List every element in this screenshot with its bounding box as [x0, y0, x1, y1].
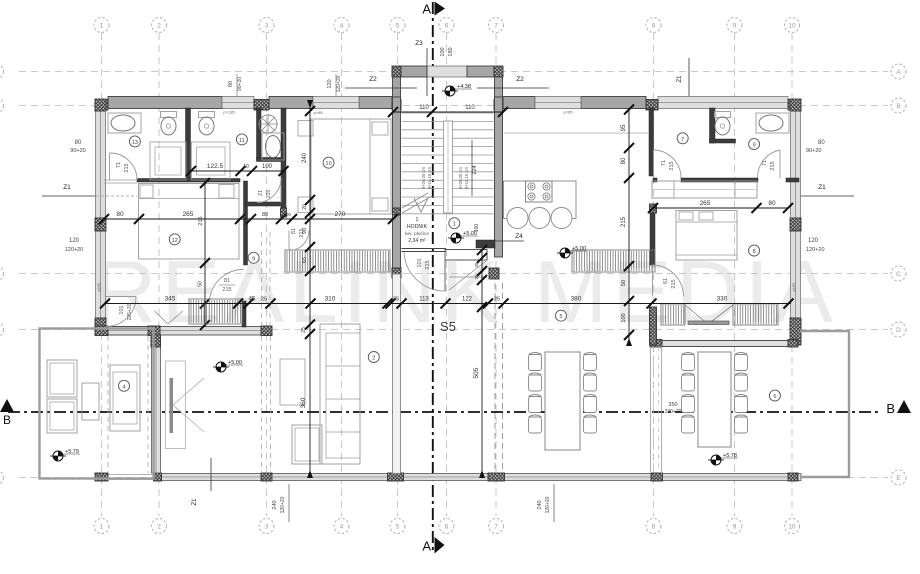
svg-text:8: 8 — [652, 524, 656, 531]
svg-text:80: 80 — [818, 140, 825, 146]
svg-text:9×28,00 cm: 9×28,00 cm — [458, 166, 463, 189]
svg-text:345: 345 — [165, 296, 176, 303]
svg-text:120+20: 120+20 — [545, 496, 551, 513]
svg-text:265: 265 — [700, 200, 711, 207]
svg-text:100: 100 — [440, 47, 446, 56]
svg-text:Z1: Z1 — [258, 190, 264, 196]
svg-text:9×16,10 cm: 9×16,10 cm — [427, 166, 432, 189]
svg-text:6: 6 — [773, 394, 776, 400]
svg-text:A: A — [896, 69, 901, 76]
svg-text:120: 120 — [808, 238, 819, 244]
svg-text:4: 4 — [340, 23, 344, 30]
svg-text:7: 7 — [494, 23, 498, 30]
svg-text:71: 71 — [116, 162, 122, 168]
svg-text:90+20: 90+20 — [806, 148, 821, 154]
svg-text:2: 2 — [157, 23, 161, 30]
svg-text:2: 2 — [372, 356, 375, 362]
svg-text:240: 240 — [272, 500, 278, 509]
svg-text:B: B — [896, 103, 900, 110]
svg-text:S5: S5 — [440, 319, 456, 334]
svg-text:Z1: Z1 — [818, 184, 826, 191]
svg-text:100: 100 — [262, 164, 273, 170]
svg-text:25: 25 — [301, 327, 307, 333]
svg-text:12: 12 — [172, 238, 178, 244]
svg-text:4: 4 — [340, 524, 344, 531]
svg-text:2,34 m²: 2,34 m² — [408, 238, 426, 244]
svg-text:2: 2 — [157, 524, 161, 531]
svg-text:10: 10 — [326, 161, 332, 167]
svg-text:65: 65 — [302, 257, 308, 263]
svg-text:215: 215 — [669, 161, 675, 170]
svg-text:80: 80 — [621, 157, 627, 164]
svg-text:81: 81 — [291, 228, 297, 234]
svg-text:ker. pločice: ker. pločice — [405, 231, 429, 237]
svg-text:101: 101 — [119, 305, 125, 314]
svg-text:360: 360 — [300, 397, 307, 408]
svg-text:A: A — [422, 2, 431, 17]
svg-text:80: 80 — [116, 211, 124, 218]
svg-text:3: 3 — [265, 524, 269, 531]
svg-text:C: C — [896, 271, 901, 278]
svg-text:5: 5 — [396, 23, 400, 30]
svg-text:9: 9 — [753, 143, 756, 149]
svg-text:330+20: 330+20 — [665, 409, 682, 415]
svg-text:215: 215 — [266, 190, 272, 199]
svg-text:61: 61 — [663, 278, 669, 284]
svg-text:100: 100 — [621, 313, 627, 322]
svg-text:95: 95 — [621, 124, 627, 131]
svg-text:45: 45 — [249, 297, 256, 303]
svg-text:p=95: p=95 — [563, 110, 573, 115]
svg-text:215: 215 — [124, 163, 130, 172]
svg-text:81: 81 — [224, 278, 230, 284]
svg-text:9: 9 — [733, 23, 737, 30]
svg-text:25: 25 — [494, 297, 500, 303]
svg-text:13: 13 — [132, 140, 138, 146]
svg-text:7: 7 — [494, 524, 498, 531]
svg-text:10: 10 — [788, 524, 796, 531]
svg-text:4: 4 — [122, 384, 125, 390]
svg-text:B: B — [3, 413, 11, 427]
svg-text:240: 240 — [537, 500, 543, 509]
svg-text:90+20: 90+20 — [70, 148, 85, 154]
svg-text:215: 215 — [671, 279, 677, 288]
svg-text:224: 224 — [472, 165, 478, 174]
svg-text:101: 101 — [417, 258, 423, 267]
svg-text:20: 20 — [302, 204, 308, 210]
svg-text:215: 215 — [299, 228, 305, 237]
svg-text:HODNIK: HODNIK — [407, 224, 428, 230]
svg-text:80: 80 — [768, 200, 776, 207]
svg-text:270: 270 — [335, 211, 346, 218]
svg-text:215: 215 — [621, 216, 627, 227]
svg-text:E: E — [896, 475, 901, 482]
svg-text:50: 50 — [621, 280, 627, 286]
svg-text:180: 180 — [448, 47, 454, 56]
svg-text:122.5: 122.5 — [207, 163, 224, 170]
svg-text:215: 215 — [198, 216, 204, 225]
svg-text:5: 5 — [559, 314, 562, 320]
svg-text:71: 71 — [661, 160, 667, 166]
svg-text:p(45): p(45) — [792, 282, 796, 292]
svg-text:11: 11 — [239, 138, 245, 144]
svg-text:113: 113 — [419, 297, 429, 303]
svg-text:215: 215 — [425, 260, 431, 269]
svg-text:Z4: Z4 — [515, 233, 523, 240]
svg-text:Z1: Z1 — [677, 75, 683, 83]
svg-text:Z1: Z1 — [63, 184, 71, 191]
svg-text:3: 3 — [265, 23, 269, 30]
svg-text:120: 120 — [327, 79, 333, 88]
svg-text:120+20: 120+20 — [65, 247, 84, 253]
svg-text:9: 9 — [252, 256, 255, 262]
svg-text:120+20: 120+20 — [336, 75, 342, 92]
svg-text:10: 10 — [242, 212, 248, 217]
svg-text:215: 215 — [222, 287, 231, 293]
svg-text:5: 5 — [396, 524, 400, 531]
svg-text:225+20: 225+20 — [127, 303, 133, 320]
svg-text:120: 120 — [69, 238, 80, 244]
svg-text:80: 80 — [75, 140, 82, 146]
svg-text:A: A — [422, 539, 431, 554]
svg-text:10: 10 — [243, 164, 249, 170]
svg-text:240: 240 — [302, 152, 308, 163]
svg-text:p(45): p(45) — [97, 282, 101, 292]
svg-text:80: 80 — [262, 212, 268, 218]
svg-text:25: 25 — [474, 262, 479, 268]
svg-text:8: 8 — [753, 249, 756, 255]
svg-text:Z2: Z2 — [369, 76, 377, 83]
svg-text:25: 25 — [261, 297, 267, 303]
svg-text:380: 380 — [571, 296, 582, 303]
svg-text:122: 122 — [462, 297, 473, 303]
svg-text:310: 310 — [325, 296, 336, 303]
svg-text:1: 1 — [100, 23, 104, 30]
svg-text:Z1: Z1 — [192, 498, 198, 506]
svg-text:71: 71 — [762, 160, 768, 166]
svg-text:330: 330 — [717, 296, 728, 303]
svg-text:p=95: p=95 — [313, 110, 323, 115]
svg-text:Z2: Z2 — [516, 76, 524, 83]
svg-text:90+20: 90+20 — [237, 77, 243, 91]
svg-text:25: 25 — [474, 274, 479, 280]
svg-text:B: B — [886, 401, 895, 416]
svg-text:p=135: p=135 — [223, 110, 235, 115]
svg-text:6: 6 — [445, 524, 449, 531]
svg-text:9×16,10 cm: 9×16,10 cm — [464, 166, 469, 189]
svg-text:50: 50 — [198, 281, 204, 287]
svg-text:8: 8 — [652, 23, 656, 30]
svg-text:215: 215 — [770, 161, 776, 170]
svg-text:110: 110 — [465, 105, 475, 111]
svg-text:7: 7 — [681, 137, 684, 143]
svg-text:265: 265 — [183, 211, 194, 218]
svg-text:1: 1 — [416, 217, 419, 223]
svg-text:25: 25 — [393, 297, 399, 303]
svg-text:505: 505 — [473, 367, 480, 378]
svg-text:9: 9 — [733, 524, 737, 531]
svg-text:350: 350 — [668, 402, 677, 408]
svg-text:6: 6 — [445, 23, 449, 30]
svg-text:1: 1 — [100, 524, 104, 531]
svg-text:120+20: 120+20 — [806, 247, 825, 253]
svg-text:10: 10 — [788, 23, 796, 30]
svg-text:80: 80 — [228, 81, 234, 87]
svg-text:Z3: Z3 — [415, 40, 423, 47]
svg-text:1: 1 — [453, 222, 456, 228]
svg-text:9×28,00 cm: 9×28,00 cm — [421, 166, 426, 189]
svg-text:120+20: 120+20 — [280, 496, 286, 513]
svg-text:110: 110 — [419, 105, 429, 111]
svg-text:D: D — [896, 327, 901, 334]
svg-text:100: 100 — [283, 212, 291, 217]
